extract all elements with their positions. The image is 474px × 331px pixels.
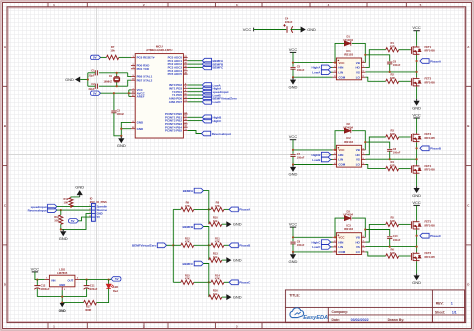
svg-text:1/1: 1/1 [452,310,457,314]
svg-text:10k: 10k [213,219,218,223]
junction bemf bus mid [172,244,174,246]
wire D1 cathode to VB [352,43,365,62]
wire FET4 source to gnd [416,174,418,186]
wire R9 to node [194,208,211,210]
wire C5 bottom [292,69,294,78]
svg-text:PhaseB: PhaseB [239,244,251,248]
wire R4 to gate [399,168,411,170]
svg-text:IR2103: IR2103 [344,140,353,144]
svg-text:100nF: 100nF [297,243,305,247]
wire C3 to gnd [114,113,121,136]
svg-text:HO: HO [355,66,360,70]
wire D3 anode [335,218,344,237]
junction phase vs [416,246,418,248]
wire ldo gnd stem [61,290,63,303]
IC2 pins [333,148,366,167]
ground ldo [60,303,65,307]
svg-text:100nF: 100nF [297,68,305,72]
wire com IC2 [293,164,333,166]
junction crystal top [116,72,118,74]
svg-text:100nF: 100nF [117,112,125,116]
resistor R3 4R7 [386,135,399,139]
junction VB tap [364,54,366,56]
wire vcc to FET5 drain [416,205,418,220]
wire node down R16 [208,282,210,297]
junction vcc branch IC2 [292,149,294,151]
net flag PhaseB [229,243,238,248]
svg-text:PB7 XTAL2: PB7 XTAL2 [137,78,153,82]
capacitor C11 220uF [86,280,88,286]
power flag 5V avcc [91,91,101,95]
svg-text:PD1 TXD: PD1 TXD [137,67,149,71]
wire R3 to gate [399,136,411,138]
svg-text:R6: R6 [390,247,394,251]
ground fets IC1 [414,99,420,106]
svg-text:VS: VS [356,70,360,74]
svg-text:47K: 47K [215,240,220,244]
svg-text:VCC: VCC [289,134,298,139]
ground fets IC3 [414,274,420,281]
svg-text:GND: GND [289,84,298,89]
svg-text:VB: VB [356,148,360,152]
net flag HighA [331,66,333,68]
wire xtal gnd [87,73,89,86]
junction com IC3 [292,251,294,253]
ground IC3 left [290,253,296,260]
svg-text:VS: VS [356,245,360,249]
junction com IC1 [292,76,294,78]
wire FET6 source to gnd [416,261,418,273]
junction c11 [86,279,88,281]
svg-text:R15: R15 [185,273,190,277]
svg-text:REV:: REV: [436,302,444,306]
svg-text:R18: R18 [54,215,59,219]
wire 5V to AVCC [101,92,132,94]
resistor R6 4R7 [386,254,399,258]
transistor FET3 IRF1405 [410,133,421,142]
net flag BEMFA [194,188,203,193]
svg-text:10k: 10k [213,255,218,259]
transistor FET1 IRF1405 [410,46,421,55]
svg-text:LM7805: LM7805 [57,271,68,275]
svg-text:FET1: FET1 [425,45,432,49]
wire reverse row [57,209,92,211]
wire vcc to FET3 drain [416,118,418,133]
wire mcu gnd pins [121,122,131,136]
svg-text:VIN: VIN [51,278,56,282]
wire c12 gnd [36,289,38,297]
wire com IC1 [293,76,333,78]
wire vcc column IC2 [292,140,294,154]
svg-text:GND: GND [117,143,126,148]
junction node PhaseB [208,244,210,246]
wire node down R13 [208,245,210,260]
wire r19 to gnd [71,196,80,199]
svg-text:47K: 47K [185,277,190,281]
svg-text:47K: 47K [185,240,190,244]
svg-text:ReverseInput: ReverseInput [212,132,231,136]
svg-text:10K: 10K [64,200,69,204]
svg-text:PhaseC: PhaseC [430,234,442,238]
svg-text:C12: C12 [41,284,46,288]
svg-text:PC6 RESET#: PC6 RESET# [137,56,155,60]
transistor FET5 IRF1405 [410,220,421,229]
svg-text:IR2103: IR2103 [344,227,353,231]
wire out rail [80,279,111,281]
wire node down R10 [208,209,210,224]
transistor FET2 IRF1405 [410,77,421,86]
svg-text:03/02/2022: 03/02/2022 [351,318,369,322]
svg-text:GND: GND [97,212,103,216]
svg-text:LED: LED [113,285,118,289]
ground xtal [75,77,80,83]
svg-text:10k: 10k [110,49,115,53]
diode D2 UF4004 [344,128,350,133]
wire FET2 source to gnd [416,87,418,99]
svg-text:GND: GND [307,27,316,32]
wire R5 to gate [399,223,411,225]
capacitor C7 100nF [290,155,295,157]
net flags pd group [188,84,203,86]
svg-text:PhaseA: PhaseA [430,59,442,63]
net flag LowA [331,71,333,73]
svg-text:BEMFA: BEMFA [183,189,194,193]
svg-text:220nF: 220nF [285,20,293,24]
wire VB to C6 [365,55,389,62]
svg-text:D1: D1 [346,35,350,39]
resistor R16 10k [209,295,222,299]
svg-text:FET4: FET4 [425,164,432,168]
svg-text:OUT: OUT [68,278,74,282]
capacitor C6 100nF [387,62,392,64]
wire R8 to flag [224,208,229,210]
wire C8 bottom to VS [389,151,391,159]
junction D1 anode [334,62,336,64]
wire bus to R12 [173,244,181,246]
wire HO to R1 [365,50,385,68]
resistor R4 4R7 [386,166,399,170]
net flag LowB [331,159,333,161]
wire speedinput row [57,206,92,208]
svg-text:Reverse: Reverse [97,208,108,212]
wire D2 anode [335,131,344,150]
wire bus to R9 [173,208,181,210]
op-amp IC3 IR2103 [336,233,361,255]
svg-text:GND: GND [59,283,65,287]
wire VS to phase node [365,158,416,160]
wire R11 to flag [224,244,229,246]
ground R10 [226,221,231,227]
wire HO to R5 [365,224,385,242]
svg-text:R10: R10 [213,216,218,220]
wire phase column [416,142,418,164]
svg-text:10k: 10k [213,292,218,296]
wire BEMFC tap [203,264,208,283]
svg-text:COM: COM [338,75,345,79]
svg-text:LowB: LowB [312,158,321,162]
svg-text:EasyEDA: EasyEDA [303,315,328,321]
svg-text:FET2: FET2 [425,77,432,81]
resistor R14 47K [211,280,224,284]
svg-text:LIN: LIN [338,158,343,162]
resistor R11 47K [211,243,224,247]
svg-text:FET6: FET6 [425,251,432,255]
svg-text:LowC: LowC [312,245,321,249]
svg-text:GND: GND [233,222,242,227]
svg-text:Sheet:: Sheet: [435,310,445,314]
svg-text:HIN: HIN [338,66,343,70]
resistor R5 4R7 [386,222,399,226]
wire bus to R15 [173,281,181,283]
svg-text:Date:: Date: [332,318,340,322]
junction phase flag [416,60,418,62]
net flag BEMFC [194,261,203,266]
wire vcc column IC1 [292,52,294,66]
junction phase vs [416,158,418,160]
svg-text:C10: C10 [393,234,398,238]
ground R16 [226,294,231,300]
svg-text:VCC: VCC [243,27,252,32]
wire bemf bus [172,209,174,282]
resistor R17 100R [84,300,97,304]
svg-text:R13: R13 [213,251,218,255]
power flag 5V io [69,219,79,223]
wire C7 bottom [292,157,294,166]
wire r18 bottom gnd rail [61,214,92,230]
svg-text:100nF: 100nF [393,63,401,67]
resistor R12 47K [181,243,194,247]
svg-text:R4: R4 [390,160,394,164]
regulator U2 LM7805 [49,275,75,287]
svg-text:100nF: 100nF [393,150,401,154]
junction vs cap [389,246,391,248]
svg-text:5V: 5V [93,56,97,60]
junction node PhaseC [208,281,210,283]
svg-text:C11: C11 [90,284,95,288]
svg-text:C8: C8 [393,147,397,151]
svg-text:1000uF: 1000uF [41,287,50,291]
net flag PhaseA [229,207,238,212]
wire R7 to RESET pin [119,56,131,58]
led LED1 Red [108,280,110,284]
junction phase flag [416,147,418,149]
wire VS to phase node [365,71,416,73]
net flag ReverseInput mcu [188,131,202,134]
junction D3 anode [334,236,336,238]
junction gnd pins [120,128,122,130]
svg-text:IRF1405: IRF1405 [425,255,436,259]
svg-text:D3: D3 [346,209,350,213]
svg-text:VS: VS [356,158,360,162]
wire vcc column IC3 [292,227,294,241]
wire LO to R6 [365,252,385,256]
svg-text:HighC: HighC [312,240,322,244]
svg-text:R5: R5 [390,216,394,220]
junction C3 tap [113,92,115,94]
svg-text:VB: VB [356,236,360,240]
svg-text:VCC: VCC [412,200,421,205]
svg-text:GND: GND [137,121,144,125]
ground io down [60,229,66,236]
wire R14 to flag [224,281,229,283]
IC1 pins [333,61,366,80]
wire BEMFB tap [203,227,208,246]
svg-text:GND: GND [59,309,67,313]
svg-text:300R: 300R [85,308,91,312]
capacitor C2 22pF [95,84,97,89]
net flag PhaseC [229,280,238,285]
junction com IC2 [292,163,294,165]
power flag 5V reset [91,55,101,59]
svg-text:LIN: LIN [338,245,343,249]
resistor R15 47K [181,280,194,284]
svg-text:5V: 5V [71,219,75,223]
svg-text:HIN: HIN [338,240,343,244]
svg-text:C9: C9 [297,239,301,243]
svg-text:220uF: 220uF [90,287,98,291]
resistor R2 4R7 [386,79,399,83]
svg-text:Drawn By:: Drawn By: [388,318,405,322]
svg-text:COM: COM [338,163,345,167]
junction io gnd [60,228,62,230]
wire R16 to gnd [222,296,227,298]
capacitor C1 22pF [95,70,97,75]
svg-text:43R: 43R [390,219,395,223]
ground mcu [118,137,124,144]
wire com IC3 [293,251,333,253]
wire VB to C8 [365,142,389,149]
wire D1 anode [335,43,344,62]
svg-text:IRF1405: IRF1405 [425,80,436,84]
wire R6 to gate [399,255,411,257]
svg-text:X1: X1 [109,74,113,78]
capacitor C4 220nF [283,24,292,33]
svg-text:1: 1 [451,302,453,306]
svg-text:43R: 43R [390,76,395,80]
wire vcc branch IC2 [293,149,333,151]
resistor R19 10K [69,198,73,207]
svg-text:GND: GND [412,106,421,111]
capacitor C8 100nF [387,149,392,151]
svg-text:IRF1405: IRF1405 [425,136,436,140]
net flag ReverseInput io [48,208,57,213]
junction gnd c3 [120,135,122,137]
net flag BEMFVirtualZero bus [157,243,166,248]
svg-text:C1: C1 [91,69,95,73]
wire BEMFA tap [203,191,208,210]
wire net XTAL2 [99,85,128,87]
wire net XTAL1 [99,72,128,74]
resistor R13 10k [209,258,222,262]
wire vcc to C4 [254,29,287,31]
svg-text:BEMFC: BEMFC [183,262,194,266]
svg-text:BEMFB: BEMFB [183,225,194,229]
svg-text:HIN: HIN [338,153,343,157]
svg-text:43R: 43R [390,45,395,49]
wire phase column [416,230,418,252]
wire c11 gnd [86,289,88,297]
resistor R9 47K [181,207,194,211]
junction ldo gnd rail [61,296,63,298]
svg-text:GND: GND [289,259,298,264]
svg-text:HO: HO [355,153,360,157]
wire R15 to node [194,281,211,283]
svg-text:47K: 47K [215,204,220,208]
junction phase vs [416,71,418,73]
resistor R7 10k [106,55,118,59]
wire R2 to gate [399,80,411,82]
mcu U1 ATMEGA328-16PU [135,54,183,138]
junction VB tap [364,141,366,143]
svg-text:C6: C6 [393,60,397,64]
wire led to r17 [97,289,109,303]
svg-text:R3: R3 [390,128,394,132]
wire R10 to gnd [222,223,227,225]
svg-text:GND: GND [65,77,74,82]
svg-text:TITLE:: TITLE: [289,293,300,297]
svg-text:GND: GND [233,295,242,300]
svg-text:Company:: Company: [332,310,349,314]
svg-text:AREF: AREF [137,95,145,99]
svg-text:COM: COM [338,250,345,254]
wire D2 cathode to VB [352,131,365,150]
svg-text:HighB: HighB [312,153,322,157]
svg-text:IR2103: IR2103 [344,53,353,57]
wire C4 to gnd [290,29,300,31]
svg-text:IRF1405: IRF1405 [425,168,436,172]
wire gnd rail ldo [37,296,86,298]
svg-text:R2: R2 [390,73,394,77]
svg-text:IRF1405: IRF1405 [425,223,436,227]
diode D3 UF4004 [344,216,350,221]
junction r18 tap [60,209,62,211]
svg-text:ReverseInput: ReverseInput [28,208,47,212]
svg-text:GND: GND [75,185,84,190]
svg-text:FET5: FET5 [425,220,432,224]
wire LO to R2 [365,77,385,81]
svg-text:R7: R7 [111,45,115,49]
svg-text:GND: GND [59,236,68,241]
wire LO to R4 [365,165,385,169]
transistor FET6 IRF1405 [410,252,421,261]
svg-text:FET3: FET3 [425,132,432,136]
wire bvz to bus [167,244,174,246]
IC3 pins [333,236,366,255]
junction ldo gnd stem [61,302,63,304]
resistor R8 47K [211,207,224,211]
ground R13 [226,257,231,263]
svg-text:PhaseC: PhaseC [239,281,251,285]
junction node PhaseA [208,208,210,210]
svg-text:GND: GND [412,193,421,198]
svg-text:100nF: 100nF [297,156,305,160]
svg-text:ATMEGA328-16PU: ATMEGA328-16PU [146,48,172,52]
net flags BEMF adc [188,60,203,62]
ldo pins [45,280,80,291]
junction vcc branch IC3 [292,236,294,238]
junction D2 anode [334,149,336,151]
net flags pb group [188,116,203,118]
svg-text:UF4004: UF4004 [343,38,353,42]
net flag HighB [331,154,333,156]
crystal X1 16MHZ [114,77,120,82]
svg-text:GND: GND [412,280,421,285]
svg-text:PhaseA: PhaseA [239,208,251,212]
diode D1 UF4004 [344,41,350,46]
wire vcc branch IC1 [293,62,333,64]
junction phase flag [416,235,418,237]
svg-text:R14: R14 [215,273,220,277]
